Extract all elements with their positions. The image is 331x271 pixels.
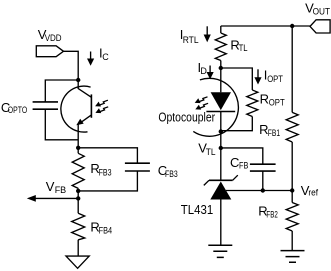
svg-text:Optocoupler: Optocoupler xyxy=(158,110,215,125)
svg-text:OPT: OPT xyxy=(267,74,283,84)
svg-text:TL431: TL431 xyxy=(181,202,213,217)
svg-text:FB1: FB1 xyxy=(268,128,280,138)
svg-text:OUT: OUT xyxy=(313,7,331,17)
svg-text:ref: ref xyxy=(308,188,318,198)
svg-text:FB4: FB4 xyxy=(99,226,113,236)
svg-text:D: D xyxy=(200,66,207,76)
svg-text:C: C xyxy=(230,155,239,170)
svg-text:V: V xyxy=(46,179,55,194)
svg-text:OPT: OPT xyxy=(269,98,285,108)
svg-text:TL: TL xyxy=(239,43,248,53)
svg-text:FB3: FB3 xyxy=(165,169,178,179)
svg-text:OPTO: OPTO xyxy=(8,105,27,115)
svg-text:FB2: FB2 xyxy=(266,210,277,220)
svg-text:TL: TL xyxy=(206,147,216,157)
svg-text:FB: FB xyxy=(239,161,248,171)
svg-text:FB: FB xyxy=(55,185,67,195)
svg-text:R: R xyxy=(260,91,269,106)
svg-text:FB3: FB3 xyxy=(99,167,112,177)
svg-text:C: C xyxy=(102,52,109,62)
svg-text:VDD: VDD xyxy=(45,33,62,43)
svg-text:RTL: RTL xyxy=(183,35,199,45)
